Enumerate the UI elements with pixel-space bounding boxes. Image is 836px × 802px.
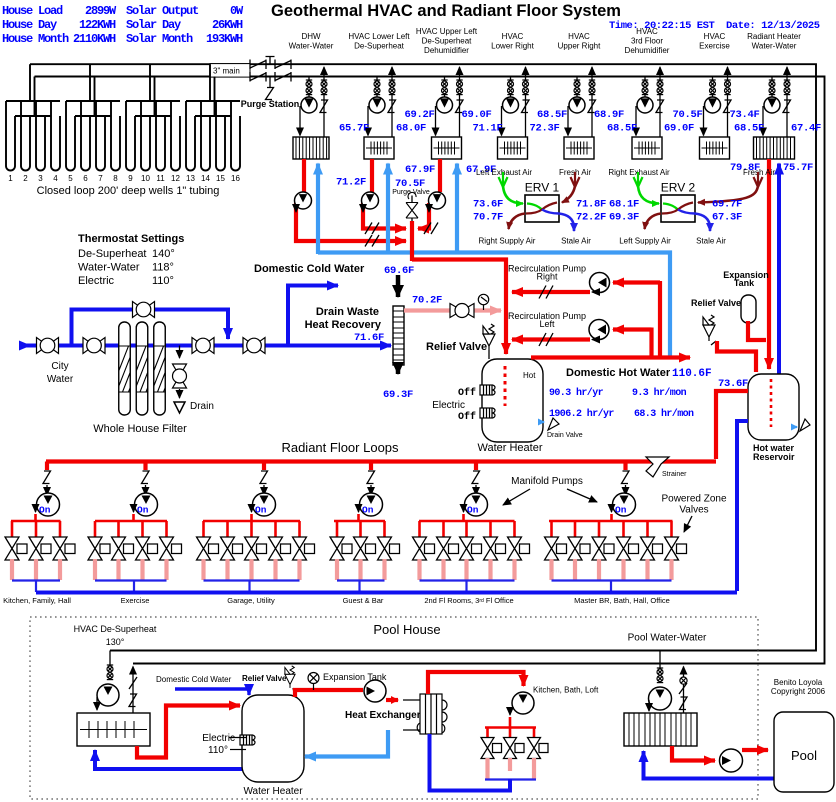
wire relief red to reservoir [717, 341, 756, 372]
zone valve 6.5 [641, 537, 663, 560]
svg-text:75.7F: 75.7F [783, 162, 813, 174]
zone valve 4.1 [330, 537, 352, 560]
well U-tube 10 [141, 101, 150, 170]
svg-text:Powered Zone: Powered Zone [661, 494, 726, 505]
svg-text:71.1F: 71.1F [472, 123, 502, 135]
filter cartridge 1 [111, 322, 153, 415]
wire group header 2a [66, 100, 120, 102]
wire zone 2 loop 3 return [140, 559, 144, 580]
wire unit 2 supply drop [376, 77, 378, 98]
hot water reservoir tank [748, 374, 799, 440]
wire ERV 1 green core [527, 204, 542, 210]
svg-text:Tank: Tank [734, 278, 755, 288]
svg-text:On: On [255, 505, 267, 516]
zone valve 2.3 [136, 537, 158, 560]
zone valve 3.1 [197, 537, 219, 560]
wire pool zone loop 3 drop [533, 728, 536, 738]
ERV 1 core box [525, 195, 559, 222]
svg-text:69.2F: 69.2F [404, 109, 434, 121]
ERV 1 temps [473, 199, 606, 224]
wire pool HX inlet stub [403, 699, 420, 701]
svg-text:26KWH: 26KWH [212, 18, 243, 32]
svg-text:Master BR, Bath, Hall, Office: Master BR, Bath, Hall, Office [574, 596, 670, 605]
wire riser supply well group 2 [89, 64, 91, 101]
sensor Z zone 4 [367, 471, 375, 484]
wire WH relief stem [488, 350, 490, 359]
valve city water 4 [243, 338, 265, 354]
wire zone 6 collector [552, 579, 672, 581]
svg-text:71.8F: 71.8F [576, 199, 606, 211]
svg-text:Dehumidifier: Dehumidifier [424, 46, 469, 55]
svg-text:1906.2 hr/yr: 1906.2 hr/yr [549, 408, 614, 420]
wire lightblue bus to HX2 [386, 164, 390, 255]
zone valve 4.2 [354, 537, 376, 560]
svg-text:On: On [362, 505, 374, 516]
wire zone 4 loop 3 drop [383, 521, 386, 537]
WH drain arrow [538, 421, 544, 423]
valve city water 3 [192, 338, 214, 354]
wire red pool A to WH [137, 706, 240, 758]
strainer symbol [646, 457, 669, 477]
wire reservoir blue return [737, 421, 748, 591]
relief valve reservoir [703, 315, 715, 341]
unit 2 label [348, 32, 410, 51]
svg-text:193KWH: 193KWH [206, 32, 243, 46]
ERV 2 temps [609, 199, 742, 224]
wire zone 2 loop 4 drop [165, 521, 168, 537]
wire zone 6 loop 6 return [669, 559, 673, 580]
svg-text:Drain Valve: Drain Valve [547, 432, 583, 439]
svg-text:1: 1 [8, 174, 13, 183]
svg-text:69.0F: 69.0F [664, 123, 694, 135]
svg-text:Kitchen, Family, Hall: Kitchen, Family, Hall [3, 596, 71, 605]
wire zone 1 loop 1 drop [11, 521, 14, 537]
wire zone 6 loop 5 drop [646, 521, 649, 537]
svg-text:House Day: House Day [2, 18, 57, 32]
wire zone 2 loop 4 return [164, 559, 168, 580]
wire ERV 1 maroon core [526, 203, 557, 214]
svg-text:Left Exhaust Air: Left Exhaust Air [476, 168, 532, 177]
svg-text:Water-Water: Water-Water [78, 262, 140, 274]
wire unit 7 supply drop [712, 77, 714, 98]
wire unit 7 into HX [703, 106, 705, 136]
svg-text:Garage, Utility: Garage, Utility [227, 596, 275, 605]
ERV 2 green inlet Y-arrow [634, 172, 643, 187]
wire zone 6 loop 1 drop [550, 521, 553, 537]
wire zone 3 sensor to pump [263, 485, 265, 495]
svg-text:Pool Water-Water: Pool Water-Water [628, 633, 707, 644]
zone valve 5.3 [460, 537, 482, 560]
WH element bottom [480, 408, 495, 418]
pump pool WW [649, 687, 672, 710]
svg-text:DHW: DHW [301, 32, 321, 41]
wire ERV 2 maroon core [662, 203, 693, 214]
wire zone 1 loop 3 return [58, 559, 62, 580]
wire red purge to WH [412, 260, 506, 355]
valve isolation header1 left [250, 60, 266, 70]
wire purge sensor drop [269, 77, 271, 88]
wire pool relief stem [293, 688, 295, 697]
sensor Z unit 8 [783, 100, 791, 113]
svg-text:Water-Water: Water-Water [752, 42, 797, 51]
svg-text:Closed loop 200' deep wells 1": Closed loop 200' deep wells 1" tubing [37, 185, 220, 197]
arrow P1 exit [295, 205, 297, 212]
svg-text:Relief Valve: Relief Valve [426, 341, 487, 353]
wire zone 3 header [203, 520, 300, 523]
zone valve 3.5 [293, 537, 315, 560]
svg-text:67.4F: 67.4F [791, 123, 821, 135]
wire riser supply well group 3 [149, 64, 151, 101]
well U-tube 9 [126, 101, 135, 171]
svg-text:Geothermal HVAC and Radiant Fl: Geothermal HVAC and Radiant Floor System [271, 2, 621, 20]
wire zone 2 loop 3 drop [141, 521, 144, 537]
svg-text:Radiant Floor Loops: Radiant Floor Loops [281, 440, 399, 455]
wire zone 3 pump out arrow [251, 506, 253, 512]
drain waste label [305, 306, 382, 331]
wire pool zone pump out [509, 717, 512, 728]
purge valve [406, 192, 418, 222]
svg-text:68.5F: 68.5F [537, 109, 567, 121]
svg-text:Whole House Filter: Whole House Filter [93, 423, 187, 435]
svg-text:130°: 130° [106, 637, 125, 647]
wire zone 5 collector [420, 579, 515, 581]
wire zone 2 pump out [132, 514, 135, 521]
valve pair unit 5 return [589, 80, 595, 95]
svg-text:70.5F: 70.5F [672, 109, 702, 121]
unit 1 label [289, 32, 334, 51]
wire pool WW supply [659, 651, 661, 669]
wire zone 2 supply drop [143, 462, 147, 471]
wire zone 1 sensor to pump [46, 485, 48, 495]
svg-text:Off: Off [458, 387, 476, 399]
svg-text:Purge Station: Purge Station [241, 99, 300, 109]
arrow P2 exit [362, 205, 364, 212]
manifold pumps arrow right [567, 489, 597, 502]
wire ERV 2 blue core [678, 210, 695, 214]
wire red HX1 to pump P1 [302, 159, 306, 192]
wire zone 6 pump out [610, 514, 613, 521]
wire unit 1 return [323, 67, 325, 137]
wire pool WW into HX [648, 700, 650, 711]
svg-text:Manifold Pumps: Manifold Pumps [511, 476, 583, 487]
pump pool A [97, 684, 119, 706]
zone valve 1.2 [29, 537, 51, 560]
wire recirc right out [512, 290, 590, 294]
wire zone 4 loop 1 return [335, 559, 339, 580]
wire city water main [23, 344, 391, 348]
svg-text:De-Superheat: De-Superheat [422, 37, 473, 46]
svg-text:Domestic Cold Water: Domestic Cold Water [156, 675, 232, 684]
zone valve 6.1 [545, 537, 567, 560]
heat exchanger HX4 (air coil) [498, 137, 528, 159]
wire zone 5 loop 4 drop [489, 521, 492, 537]
wire zone 5 sensor to pump [475, 485, 477, 495]
svg-text:Solar Month: Solar Month [126, 32, 193, 46]
wire pool unit A supply [109, 651, 111, 667]
wire riser return well group 4 [214, 77, 216, 117]
svg-text:110°: 110° [152, 275, 174, 287]
wire zone 3 loop 4 drop [274, 521, 277, 537]
water heater tank [482, 359, 543, 442]
wire zone 5 loop 2 drop [442, 521, 445, 537]
wire group header 1b [15, 115, 51, 117]
wire domestic cold water [288, 286, 338, 346]
svg-text:Domestic Hot Water: Domestic Hot Water [566, 367, 671, 379]
svg-text:3rd Floor: 3rd Floor [631, 37, 663, 46]
svg-text:10: 10 [141, 174, 150, 183]
svg-text:110.6F: 110.6F [672, 368, 712, 380]
wire recirc right in [613, 280, 660, 284]
wire filter drain [179, 346, 181, 359]
wire zone 1 collector drop [35, 581, 37, 593]
wire group header 3b [135, 115, 171, 117]
svg-text:2nd Fl Rooms, 3rd Fl Office: 2nd Fl Rooms, 3rd Fl Office [424, 596, 513, 605]
well U-tube 3 [36, 101, 45, 171]
unit 5 label [558, 32, 601, 51]
svg-text:67.3F: 67.3F [712, 212, 742, 224]
wire zone 6 loop 5 return [645, 559, 649, 580]
wire expansion tank to red [748, 321, 766, 340]
pool WH element labels [202, 733, 246, 756]
wire zone 1 collector [12, 579, 60, 581]
wire zone 3 loop 1 drop [202, 521, 205, 537]
svg-text:2899W: 2899W [85, 4, 117, 18]
wire unit 1 supply drop [308, 77, 310, 98]
ERV 1 green inlet Y-arrow [499, 172, 508, 187]
svg-text:Electric: Electric [432, 400, 465, 411]
svg-text:Relief Valve: Relief Valve [691, 298, 741, 308]
WH element top [480, 385, 495, 395]
wire zone 5 loop 1 return [417, 559, 421, 580]
heat exchanger HX6 (air coil) [632, 137, 662, 159]
wire zone 4 sensor to pump [370, 485, 372, 495]
well U-tube 5 [66, 101, 75, 170]
wire zone 3 loop 3 drop [250, 521, 253, 537]
manifold pump M5 [465, 493, 488, 516]
hot water reservoir label [753, 443, 795, 462]
wire unit 3 supply drop [444, 77, 446, 98]
wire recirc left riser [649, 328, 653, 360]
well U-tube 1 [6, 101, 15, 170]
wire pool zone return bus [430, 734, 511, 791]
wire red P2 to purge bus A [363, 203, 406, 229]
wire reservoir takeoff [716, 391, 748, 459]
svg-text:Strainer: Strainer [662, 471, 687, 478]
wire red HX8 to reservoir [767, 159, 771, 369]
svg-text:HVAC: HVAC [636, 27, 658, 36]
pump pool zones [512, 692, 534, 714]
svg-text:3" main: 3" main [213, 67, 240, 76]
svg-text:68.3 hr/mon: 68.3 hr/mon [634, 408, 694, 420]
svg-text:Right Supply Air: Right Supply Air [479, 237, 536, 246]
svg-text:Benito Loyola: Benito Loyola [774, 678, 823, 687]
wire zone 4 pump out arrow [358, 506, 360, 512]
svg-text:Kitchen, Bath, Loft: Kitchen, Bath, Loft [533, 686, 599, 695]
heat exchanger HX5 (air coil) [564, 137, 594, 159]
heat exchanger HX2 (air coil) [364, 137, 394, 159]
pump unit 4 [503, 97, 519, 113]
sensor Z zone 6 [622, 471, 630, 484]
HVAC de-superheat label [74, 624, 157, 647]
svg-text:65.7F: 65.7F [339, 123, 369, 135]
wire zone 4 collector [337, 579, 385, 581]
wire radiant return bus [36, 591, 737, 595]
wire pool zone return 1 [485, 758, 489, 779]
svg-text:14: 14 [201, 174, 210, 183]
svg-text:Heat Exchanger: Heat Exchanger [345, 710, 421, 721]
well U-tube 13 [186, 101, 195, 171]
svg-text:110°: 110° [208, 745, 228, 756]
svg-text:Stale Air: Stale Air [696, 237, 726, 246]
svg-text:71.2F: 71.2F [336, 177, 366, 189]
wire radiant main [46, 459, 716, 463]
valve slash bus A right [424, 223, 438, 235]
WH dip tube dotted [504, 366, 507, 406]
wire zone 1 header [11, 520, 61, 523]
wire unit 4 into HX [501, 106, 503, 136]
wire drain 2 [179, 389, 181, 398]
svg-text:Water Heater: Water Heater [243, 786, 303, 797]
sensor Z zone 5 [472, 471, 480, 484]
wire zone 6 loop 4 return [621, 559, 625, 580]
wire zone 4 loop 2 return [358, 559, 362, 580]
wire zone 4 collector drop [358, 581, 360, 593]
sensor Z zone 1 [43, 471, 51, 484]
valve pair unit 4 return [522, 80, 528, 95]
zone valve 1.1 [5, 537, 27, 560]
zone valve 5.1 [413, 537, 435, 560]
wire zone 2 pump out arrow [133, 506, 135, 512]
svg-text:Radiant Heater: Radiant Heater [747, 32, 801, 41]
wire ERV 2 green core [663, 204, 678, 210]
svg-text:Stale Air: Stale Air [561, 237, 591, 246]
wire ERV 2 stale out [695, 214, 710, 232]
valve pair unit 7 return [724, 80, 730, 95]
wire red pool WW to pump [672, 746, 715, 761]
valve slash pool WW [679, 683, 687, 694]
svg-text:140°: 140° [152, 248, 175, 260]
DWHR heat exchanger stack [393, 306, 404, 365]
well U-tube 6 [81, 101, 90, 171]
expansion tank [741, 295, 756, 323]
wire pool lightblue return [305, 730, 388, 757]
wire unit 8 return [786, 67, 788, 137]
valve isolation header2 right [275, 72, 291, 82]
ERV 2 core box [661, 195, 695, 222]
wire unit 8 into HX [762, 106, 764, 136]
svg-text:Right Exhaust Air: Right Exhaust Air [608, 168, 670, 177]
wire recirc right riser [658, 281, 662, 359]
wire ERV 1 green exhaust [503, 186, 523, 204]
wire drain water out [396, 365, 401, 374]
wire zone 5 loop 3 return [464, 559, 468, 580]
zone valve 5.4 [484, 537, 506, 560]
wire zone 1 loop 2 return [34, 559, 38, 580]
wire zone 3 loop 2 drop [226, 521, 229, 537]
wire zone 5 loop 1 drop [418, 521, 421, 537]
svg-text:70.7F: 70.7F [473, 212, 503, 224]
wire zone 4 loop 3 return [382, 559, 386, 580]
svg-text:HVAC: HVAC [704, 32, 726, 41]
wire zone 6 loop 1 return [549, 559, 553, 580]
svg-text:Solar Day: Solar Day [126, 18, 181, 32]
svg-text:Dehumidifier: Dehumidifier [625, 46, 670, 55]
wire zone 2 loop 1 return [93, 559, 97, 580]
valve pair unit 3 supply [441, 80, 447, 95]
manifold pump M1 [37, 493, 60, 516]
wire pool zone return 3 [532, 758, 536, 779]
svg-text:71.6F: 71.6F [354, 332, 384, 344]
reservoir drain arrow [791, 426, 797, 428]
wire group header 2b [75, 115, 111, 117]
arrow pool zone pump exit [509, 709, 511, 715]
svg-text:90.3 hr/yr: 90.3 hr/yr [549, 387, 604, 399]
svg-text:Relief Valve: Relief Valve [242, 674, 287, 683]
svg-text:On: On [615, 505, 627, 516]
wire DHW main [531, 355, 690, 359]
unit 3 label [416, 27, 478, 55]
wire zone 1 loop 2 drop [35, 521, 38, 537]
svg-text:69.0F: 69.0F [462, 109, 492, 121]
svg-text:Pool House: Pool House [373, 622, 440, 637]
pool zone valve 2 [504, 738, 525, 759]
wire zone 6 loop 3 return [597, 559, 601, 580]
sensor Z purge station [266, 88, 274, 100]
svg-text:Left: Left [539, 319, 555, 329]
wire ERV 1 stale out [559, 214, 574, 232]
zone valve 6.4 [617, 537, 639, 560]
wire zone 5 collector drop [465, 581, 467, 593]
wire unit 2 into HX [367, 106, 369, 136]
wire recirc left in [613, 327, 652, 331]
wire riser return well group 3 [154, 77, 156, 117]
svg-text:3: 3 [38, 174, 43, 183]
reservoir drain valve flag [800, 419, 810, 431]
pump pool loop [720, 749, 743, 772]
zone valve 2.2 [112, 537, 134, 560]
valve pair unit 6 return [657, 80, 663, 95]
filter cartridge 3 [146, 322, 188, 415]
manifold pump M3 [253, 493, 276, 516]
wire zone 3 loop 3 return [249, 559, 253, 580]
wire blue pool WH to A [95, 750, 242, 769]
svg-text:69.3F: 69.3F [609, 212, 639, 224]
wire zone 2 collector [95, 579, 167, 581]
purge port stub [266, 57, 275, 65]
wire unit 5 supply drop [576, 77, 578, 98]
svg-text:Off: Off [458, 411, 476, 423]
wire pool DCW [175, 689, 249, 695]
svg-text:On: On [39, 505, 51, 516]
wire unit 5 into HX [567, 106, 569, 136]
unit 7 label [699, 32, 730, 51]
svg-text:House Month: House Month [2, 32, 69, 46]
svg-text:De-Superheat: De-Superheat [78, 248, 147, 260]
wire pool zone collector [485, 778, 536, 780]
pump P2 [362, 192, 379, 209]
svg-text:Electric: Electric [202, 733, 235, 744]
wire pool A into HX [96, 697, 98, 710]
gauge preheat [478, 294, 488, 310]
wire relief reservoir stem [711, 341, 716, 345]
wire zone 5 loop 4 return [488, 559, 492, 580]
wire zone 3 loop 5 return [297, 559, 301, 580]
svg-text:9: 9 [128, 174, 133, 183]
wire recirc left out [512, 337, 590, 341]
wire zone 6 sensor to pump [625, 485, 627, 495]
wire zone 6 pump out arrow [611, 506, 613, 512]
wire zone 3 collector [204, 579, 300, 581]
